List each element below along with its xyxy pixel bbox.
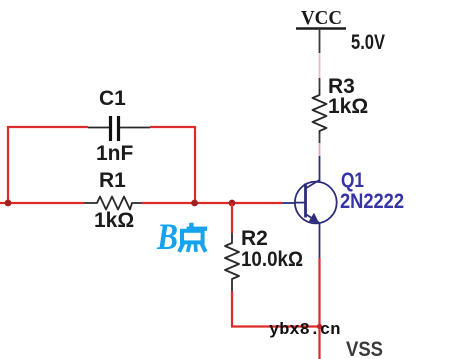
- node B label: [156, 217, 207, 258]
- svg-text:VCC: VCC: [301, 7, 342, 29]
- wire R2 bottom: [231, 291, 233, 327]
- capacitor C1: [88, 87, 150, 165]
- svg-text:1kΩ: 1kΩ: [328, 95, 368, 118]
- resistor R2: [225, 203, 303, 291]
- wire VCC to R3 (faded): [319, 53, 321, 78]
- wire bottom horizontal: [231, 325, 320, 327]
- svg-text:ybx8.cn: ybx8.cn: [269, 321, 340, 340]
- wire left vertical: [7, 126, 9, 203]
- glyph dian: [179, 223, 207, 252]
- svg-text:R2: R2: [241, 227, 268, 250]
- junction emitter-bottom: [317, 324, 322, 329]
- wire top left: [7, 126, 88, 128]
- wire base navy stub: [282, 202, 295, 204]
- svg-text:VSS: VSS: [346, 338, 383, 359]
- svg-text:5.0V: 5.0V: [351, 31, 385, 54]
- resistor R3: [313, 75, 369, 134]
- junction dot R2 top: [229, 200, 236, 207]
- svg-text:1kΩ: 1kΩ: [94, 209, 134, 232]
- power symbol VCC: [296, 7, 346, 89]
- svg-text:Q1: Q1: [341, 169, 364, 192]
- svg-text:B: B: [156, 217, 178, 258]
- wire VCC stub: [319, 29, 321, 54]
- svg-text:C1: C1: [99, 87, 126, 110]
- wire base (red run): [142, 202, 282, 204]
- svg-text:1nF: 1nF: [96, 142, 134, 165]
- wire top right: [150, 126, 195, 128]
- resistor R1: [84, 169, 142, 232]
- svg-text:R1: R1: [99, 169, 126, 192]
- wire emitter down: [319, 224, 321, 258]
- svg-text:2N2222: 2N2222: [340, 190, 404, 213]
- junction dot left: [5, 200, 12, 207]
- wire R3 to collector: [319, 134, 321, 183]
- junction dot mid: [191, 200, 198, 207]
- wire left bottom: [0, 202, 84, 204]
- wire right vertical: [194, 126, 196, 203]
- svg-text:10.0kΩ: 10.0kΩ: [241, 248, 303, 271]
- transistor Q1 2N2222: [295, 169, 404, 223]
